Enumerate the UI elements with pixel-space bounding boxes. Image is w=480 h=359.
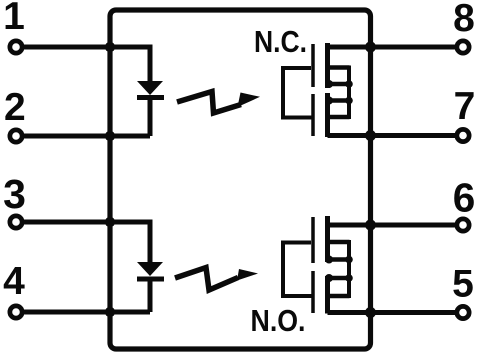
node junction pin1 / box left edge bbox=[105, 42, 115, 52]
MOSFET Q1 drain lead to pin7 node bbox=[328, 133, 371, 138]
wire pin4 to LED2 cathode bbox=[24, 310, 150, 315]
MOSFET Q1 gate bracket bbox=[283, 68, 313, 118]
wire LED1 cathode down to pin2 row bbox=[148, 100, 153, 136]
svg-text:5: 5 bbox=[452, 263, 474, 306]
package outline U1 bbox=[110, 10, 371, 349]
wire box to pin8 bbox=[371, 45, 456, 50]
MOSFET Q2 channel end blob lower bbox=[325, 274, 333, 282]
pin 6 terminal circle bbox=[457, 219, 469, 231]
node junction pin2 / box left edge bbox=[105, 131, 115, 141]
svg-text:N.C.: N.C. bbox=[254, 25, 307, 59]
node junction pin7 / box right edge bbox=[365, 130, 376, 141]
MOSFET Q2 source junction dot upper bbox=[345, 256, 353, 264]
MOSFET Q1 channel end blob upper bbox=[325, 80, 333, 88]
arrowhead of emission arrow Q1 bbox=[238, 93, 261, 108]
node junction pin5 / box right edge bbox=[365, 307, 376, 318]
svg-text:N.O.: N.O. bbox=[251, 304, 306, 338]
MOSFET Q2 gate electrode upper bbox=[311, 217, 315, 263]
MOSFET Q1 channel end blob lower bbox=[325, 97, 333, 105]
MOSFET Q1 source rung upper bbox=[328, 82, 350, 87]
svg-text:4: 4 bbox=[3, 260, 25, 303]
pin 3 terminal circle bbox=[10, 216, 22, 228]
svg-text:6: 6 bbox=[453, 175, 476, 221]
MOSFET Q1 source junction dot lower bbox=[345, 97, 353, 105]
MOSFET Q2 body rung lower bbox=[328, 294, 350, 299]
MOSFET Q1 body rung lower bbox=[328, 115, 350, 120]
MOSFET Q1 channel upper bbox=[325, 43, 330, 88]
wire LED2 cathode down to pin4 row bbox=[148, 282, 153, 313]
MOSFET Q1 body rung upper bbox=[328, 65, 350, 70]
LED D2 cathode bar bbox=[137, 277, 164, 282]
wire pin3 to LED2 anode corner bbox=[24, 222, 150, 262]
MOSFET Q2 body rung upper bbox=[328, 240, 350, 245]
MOSFET Q2 gate electrode lower bbox=[311, 271, 315, 313]
MOSFET Q2 common source bar bbox=[347, 240, 351, 298]
svg-text:3: 3 bbox=[3, 171, 26, 217]
wire pin2 to LED1 cathode bbox=[24, 134, 150, 139]
pin 8 terminal circle bbox=[457, 41, 469, 53]
MOSFET Q2 gate bracket bbox=[283, 243, 313, 297]
MOSFET Q1 source rung lower bbox=[328, 98, 350, 103]
MOSFET Q1 channel lower bbox=[325, 93, 330, 137]
MOSFET Q1 common source bar bbox=[347, 66, 351, 120]
MOSFET Q2 channel end blob upper bbox=[325, 256, 333, 264]
pin 7 terminal circle bbox=[457, 129, 469, 141]
MOSFET Q1 drain lead to pin8 node bbox=[328, 45, 371, 50]
node junction pin6 / box right edge bbox=[365, 220, 376, 231]
light emission arrow to Q2 bbox=[175, 268, 238, 291]
LED D1 cathode bar bbox=[137, 95, 164, 100]
pin 4 terminal circle bbox=[10, 306, 22, 318]
svg-text:8: 8 bbox=[453, 0, 475, 40]
pin 2 terminal circle bbox=[10, 130, 22, 142]
MOSFET Q2 drain lead to pin5 node bbox=[328, 310, 371, 315]
node junction pin8 / box right edge bbox=[365, 42, 376, 53]
wire box to pin7 bbox=[371, 133, 456, 138]
MOSFET Q2 source rung lower bbox=[328, 276, 350, 281]
svg-text:2: 2 bbox=[4, 86, 26, 129]
wire pin1 to LED1 anode corner bbox=[24, 47, 150, 81]
MOSFET Q2 source rung upper bbox=[328, 257, 350, 262]
MOSFET Q2 channel upper bbox=[325, 216, 330, 262]
svg-text:7: 7 bbox=[454, 85, 476, 128]
wire box to pin5 bbox=[371, 310, 456, 315]
arrowhead of emission arrow Q2 bbox=[237, 269, 258, 281]
node junction pin3 / box left edge bbox=[105, 217, 115, 227]
pin 1 terminal circle bbox=[10, 41, 22, 53]
MOSFET Q1 gate electrode upper bbox=[311, 44, 315, 87]
node junction pin4 / box left edge bbox=[105, 307, 115, 317]
MOSFET Q2 source junction dot lower bbox=[345, 274, 353, 282]
MOSFET Q1 source junction dot upper bbox=[345, 80, 353, 88]
pin 5 terminal circle bbox=[457, 306, 469, 318]
LED D1 anode triangle bbox=[137, 81, 163, 95]
LED D2 anode triangle bbox=[137, 262, 163, 276]
MOSFET Q2 channel lower bbox=[325, 276, 330, 314]
light emission arrow to Q1 bbox=[177, 92, 241, 114]
MOSFET Q1 gate electrode lower bbox=[311, 94, 315, 136]
wire box to pin6 bbox=[371, 223, 456, 228]
MOSFET Q2 drain lead to pin6 node bbox=[328, 223, 371, 228]
svg-text:1: 1 bbox=[3, 0, 25, 38]
